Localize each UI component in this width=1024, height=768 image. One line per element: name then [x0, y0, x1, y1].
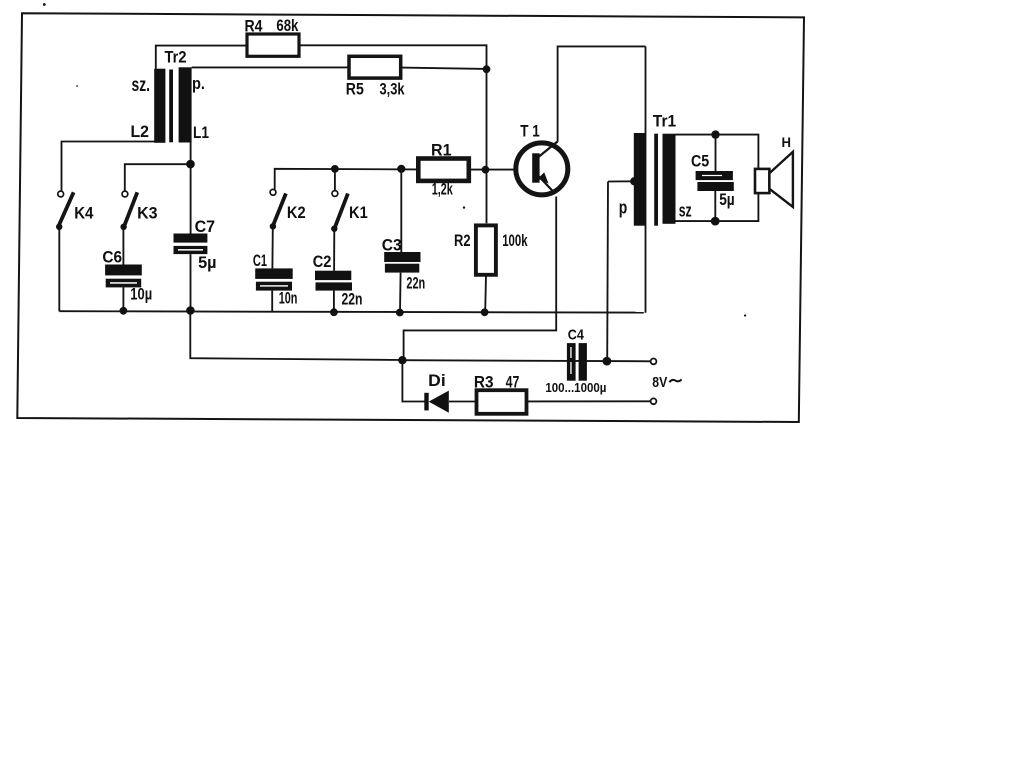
svg-text:H: H [782, 134, 792, 150]
svg-text:R5: R5 [346, 81, 364, 99]
svg-text:R1: R1 [431, 142, 452, 160]
transformer Tr1 [630, 133, 675, 226]
node R1/base [482, 166, 490, 174]
svg-text:sz.: sz. [132, 75, 151, 96]
resistor R2 [476, 225, 496, 274]
node R2 bus [481, 308, 489, 316]
node C3 bus [396, 309, 404, 317]
svg-text:K1: K1 [349, 204, 368, 222]
terminal 8V lower [651, 398, 657, 404]
wire [192, 66, 349, 68]
svg-text:100...1000µ: 100...1000µ [545, 381, 606, 395]
wire [645, 46, 647, 312]
svg-text:K4: K4 [74, 205, 94, 223]
switch K4 [56, 191, 74, 230]
wire [558, 46, 646, 141]
svg-text:C5: C5 [691, 153, 709, 171]
diode D1 [424, 391, 449, 413]
svg-text:68k: 68k [276, 17, 299, 35]
node C4 right [603, 357, 612, 366]
svg-text:Tr1: Tr1 [653, 113, 676, 131]
svg-text:5µ: 5µ [198, 254, 216, 272]
svg-text:L1: L1 [193, 124, 209, 142]
capacitor C6 [105, 265, 142, 288]
svg-text:3,3k: 3,3k [380, 81, 406, 99]
switch K3 [120, 191, 137, 230]
svg-text:C4: C4 [568, 327, 585, 344]
wire [606, 182, 609, 362]
resistor R1 [418, 159, 469, 181]
transformer Tr2 [154, 67, 191, 142]
resistor R5 [349, 56, 401, 78]
svg-text:22n: 22n [342, 291, 363, 309]
svg-text:L2: L2 [131, 123, 150, 141]
wire [190, 142, 192, 233]
wire [676, 193, 759, 221]
wire [334, 169, 336, 191]
wire [608, 180, 634, 182]
svg-text:8V: 8V [652, 375, 667, 391]
svg-text:Tr2: Tr2 [165, 49, 187, 67]
node supply [398, 356, 406, 364]
svg-text:R3: R3 [474, 373, 494, 391]
svg-text:R4: R4 [245, 17, 264, 35]
wire [470, 169, 533, 171]
wire [122, 227, 124, 265]
svg-text:47: 47 [506, 373, 520, 391]
svg-text:K3: K3 [137, 205, 158, 223]
svg-text:5µ: 5µ [719, 191, 735, 209]
border frame [17, 13, 804, 422]
wire [62, 142, 155, 192]
svg-text:p: p [619, 198, 628, 218]
wire [299, 45, 487, 223]
svg-text:C2: C2 [313, 253, 332, 271]
wire [484, 275, 487, 311]
capacitor C4 [567, 343, 587, 381]
wire [715, 135, 717, 171]
svg-text:C1: C1 [253, 252, 267, 270]
wire [271, 291, 273, 312]
svg-text:1,2k: 1,2k [432, 181, 454, 199]
resistor R4 [247, 34, 299, 56]
svg-text:C3: C3 [382, 236, 402, 254]
capacitor C3 [384, 252, 420, 273]
node K1 top [331, 165, 339, 173]
wire [59, 311, 644, 312]
node C2 bus [330, 308, 338, 316]
wire [402, 360, 424, 401]
node C6 bus [120, 307, 128, 315]
svg-text:C7: C7 [195, 218, 216, 236]
svg-text:R2: R2 [454, 232, 471, 250]
svg-text:p.: p. [192, 75, 205, 93]
transistor T1 [516, 142, 568, 195]
svg-text:sz: sz [679, 201, 692, 221]
node L1/K3 [186, 160, 195, 169]
wire [404, 197, 557, 361]
capacitor C7 [174, 234, 208, 255]
svg-text:22n: 22n [406, 274, 425, 292]
svg-text:10µ: 10µ [130, 286, 152, 304]
capacitor C5 [696, 171, 734, 191]
specks [43, 3, 746, 317]
wire [333, 291, 335, 312]
resistor R3 [477, 390, 527, 414]
wire [399, 273, 402, 313]
wire [527, 400, 650, 402]
node C3 top [397, 165, 405, 173]
wire [401, 68, 487, 69]
svg-text:T 1: T 1 [520, 122, 540, 140]
wire [449, 401, 476, 403]
capacitor C2 [315, 271, 352, 291]
switch K1 [331, 191, 348, 232]
wire [333, 229, 335, 271]
node C5 bottom [711, 217, 720, 226]
svg-text:10n: 10n [279, 290, 298, 308]
switch K2 [270, 189, 286, 229]
wire [190, 254, 192, 311]
wire [58, 227, 60, 311]
wire [271, 226, 273, 268]
wire [125, 164, 191, 191]
svg-text:K2: K2 [287, 204, 306, 222]
wire [676, 135, 759, 170]
wire [402, 360, 651, 361]
node R5 join [483, 65, 491, 73]
wire [275, 169, 417, 190]
svg-text:100k: 100k [502, 232, 528, 250]
wire [122, 287, 124, 311]
wire [714, 191, 716, 221]
speaker H [755, 152, 793, 207]
node C7 bus [186, 306, 195, 315]
wire [190, 311, 402, 360]
wire [156, 46, 247, 69]
wire [400, 169, 402, 252]
node C5 top [711, 130, 719, 138]
svg-text:C6: C6 [102, 248, 122, 266]
terminal 8V upper [651, 359, 657, 365]
capacitor C1 [255, 268, 293, 290]
svg-text:Di: Di [428, 372, 446, 390]
